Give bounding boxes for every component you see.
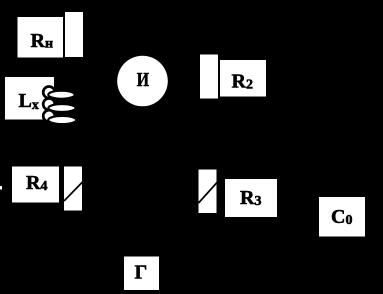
resistor R3 symbol (adjustable): [199, 170, 218, 214]
svg-text:И: И: [137, 69, 150, 91]
node tick left edge: [0, 186, 2, 190]
resistor Rн label box: [18, 17, 64, 58]
svg-text:Г: Г: [135, 262, 148, 284]
generator Г label box: [124, 257, 159, 291]
resistor R3 label box: [225, 179, 277, 217]
resistor R4 symbol (adjustable): [64, 167, 83, 211]
inductor Lx coil: [43, 87, 76, 125]
resistor R2 symbol: [200, 55, 218, 99]
resistor Rн symbol: [65, 12, 83, 57]
resistor R4 label box: [12, 167, 59, 203]
indicator И circle: [117, 56, 168, 107]
resistor R2 label box: [220, 60, 266, 97]
capacitor C0 label box: [319, 197, 365, 237]
inductor Lx label box: [5, 77, 54, 120]
